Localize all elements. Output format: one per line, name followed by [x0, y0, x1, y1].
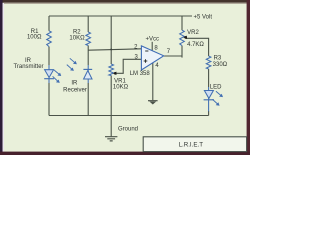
IR receiver photodiode [83, 68, 92, 70]
wire R1 column top [48, 16, 50, 31]
svg-text:LM 358: LM 358 [130, 71, 151, 77]
svg-text:10KΩ: 10KΩ [69, 36, 85, 42]
potentiometer VR1 10Kohm [109, 64, 114, 76]
IR receiver incoming arrows [67, 58, 77, 71]
LED output indicator [204, 91, 213, 99]
op-amp U1 LM358 [141, 46, 163, 70]
VR1 wiper arrow [113, 72, 117, 75]
wire R2 bottom to IR receiver [87, 46, 89, 66]
ground earth symbol below rail [110, 116, 112, 136]
ground symbol below pin 4 [148, 100, 158, 102]
resistor R2 10Kohm [86, 32, 91, 46]
svg-text:+5 Volt: +5 Volt [194, 15, 213, 21]
svg-text:L.R.I.E.T: L.R.I.E.T [179, 141, 204, 148]
svg-text:LED: LED [210, 85, 222, 91]
svg-text:100Ω: 100Ω [27, 34, 42, 40]
svg-text:R3: R3 [214, 56, 222, 62]
border frame bottom [0, 152, 250, 155]
node crossing VR1 column / pin2 wire [110, 48, 112, 50]
svg-text:Receiver: Receiver [63, 88, 87, 94]
wire VR2 wiper to R3 top [186, 38, 209, 56]
blue lead LED column [208, 87, 210, 111]
wire op-amp pin 8 Vcc stub [151, 42, 153, 51]
op-amp minus sign [145, 50, 148, 52]
svg-text:+Vcc: +Vcc [146, 37, 160, 43]
L.R.I.E.T box [143, 137, 246, 152]
LED emission arrows [213, 91, 224, 106]
IR transmitter LED [45, 70, 54, 78]
wire VR1 bottom to ground rail [110, 76, 112, 116]
svg-text:VR2: VR2 [187, 30, 199, 36]
svg-text:IR: IR [71, 81, 78, 87]
resistor R1 100ohm [47, 31, 52, 47]
wire +5V top rail [49, 15, 192, 17]
wire LED bottom to ground rail [208, 111, 210, 116]
svg-text:330Ω: 330Ω [213, 62, 228, 68]
svg-text:R2: R2 [73, 29, 81, 35]
wire ground rail [49, 115, 209, 117]
wire op-amp pin 4 to ground [152, 63, 154, 100]
resistor R3 330ohm [206, 56, 211, 69]
svg-text:Ground: Ground [118, 126, 138, 132]
border frame left [0, 0, 3, 155]
IR transmitter emission arrows [53, 70, 62, 83]
border frame top [0, 0, 250, 3]
wire VR1 wiper to op-amp pin 3 [115, 59, 141, 73]
blue lead IR receiver [87, 65, 89, 83]
svg-text:4.7KΩ: 4.7KΩ [187, 42, 204, 48]
wire VR2 bottom to pin7 node [181, 46, 183, 58]
wire R1 bottom to IR transmitter [48, 47, 50, 65]
wire op-amp pin 7 output [164, 55, 182, 57]
wire IR receiver to ground rail [87, 83, 89, 116]
svg-text:10KΩ: 10KΩ [113, 84, 129, 90]
wire node to op-amp pin 2 [88, 49, 141, 50]
svg-text:Transmitter: Transmitter [13, 64, 43, 70]
wire IR transmitter to ground rail [48, 83, 50, 116]
VR2 wiper arrow [183, 36, 187, 39]
border frame right [247, 0, 250, 155]
wire VR2 column top [181, 16, 183, 30]
wire R3 bottom to LED [208, 69, 210, 87]
op-amp plus sign [144, 59, 148, 63]
blue lead IR transmitter [48, 65, 50, 83]
potentiometer VR2 4.7Kohm [180, 30, 185, 45]
wire R2 column top [87, 16, 89, 32]
wire VR1 column top [110, 16, 112, 64]
